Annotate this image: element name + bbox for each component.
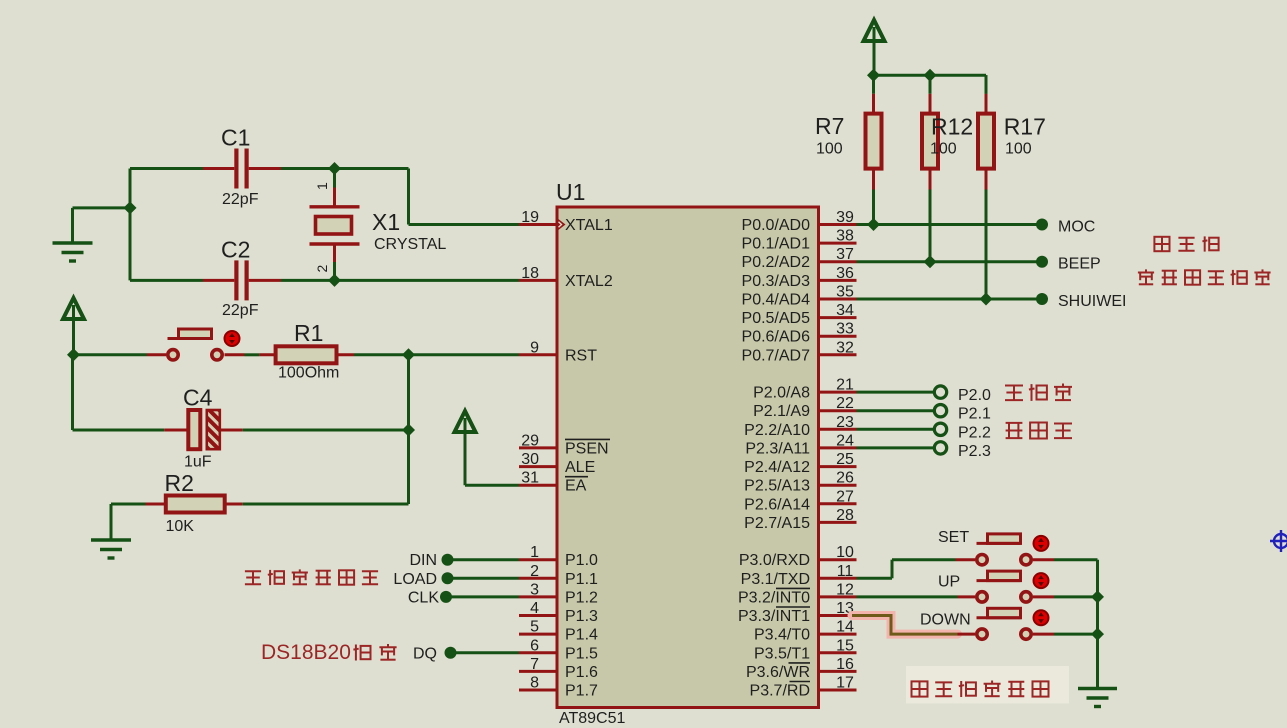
svg-text:P3.2/INT0: P3.2/INT0 — [738, 589, 810, 606]
svg-text:P0.6/AD6: P0.6/AD6 — [742, 329, 811, 346]
svg-text:39: 39 — [836, 209, 854, 226]
svg-text:UP: UP — [938, 574, 960, 591]
svg-text:P1.3: P1.3 — [565, 608, 598, 625]
svg-text:P1.2: P1.2 — [565, 589, 598, 606]
svg-text:19: 19 — [521, 209, 539, 226]
svg-text:11: 11 — [837, 563, 854, 580]
svg-text:P1.1: P1.1 — [565, 571, 598, 588]
svg-text:3: 3 — [530, 581, 539, 598]
svg-text:10K: 10K — [166, 518, 195, 535]
svg-text:16: 16 — [836, 656, 854, 673]
svg-text:18: 18 — [521, 265, 539, 282]
svg-text:P0.2/AD2: P0.2/AD2 — [742, 254, 811, 271]
svg-text:P1.0: P1.0 — [565, 552, 598, 569]
svg-text:P3.3/INT1: P3.3/INT1 — [738, 608, 810, 625]
svg-text:P2.5/A13: P2.5/A13 — [744, 478, 810, 495]
svg-text:8: 8 — [530, 675, 539, 692]
svg-text:35: 35 — [836, 284, 854, 301]
svg-text:26: 26 — [836, 470, 854, 487]
svg-text:RST: RST — [565, 347, 597, 364]
svg-text:P2.1: P2.1 — [958, 406, 991, 423]
svg-text:DS18B20: DS18B20 — [261, 641, 351, 664]
svg-text:22pF: 22pF — [222, 191, 259, 208]
svg-text:100: 100 — [1005, 141, 1032, 158]
svg-text:R7: R7 — [815, 113, 844, 139]
svg-text:P1.4: P1.4 — [565, 627, 598, 644]
svg-text:24: 24 — [836, 432, 854, 449]
svg-text:CLK: CLK — [408, 589, 439, 606]
svg-text:2: 2 — [314, 265, 330, 273]
svg-text:P2.3: P2.3 — [958, 443, 991, 460]
svg-text:XTAL2: XTAL2 — [565, 273, 613, 290]
svg-text:U1: U1 — [556, 179, 585, 205]
svg-text:R2: R2 — [165, 470, 194, 496]
svg-text:P2.0: P2.0 — [958, 387, 991, 404]
svg-text:29: 29 — [521, 432, 539, 449]
svg-text:1uF: 1uF — [184, 454, 212, 471]
svg-text:P3.6/WR: P3.6/WR — [746, 664, 810, 681]
svg-text:C1: C1 — [221, 125, 250, 151]
svg-text:37: 37 — [836, 246, 854, 263]
svg-text:7: 7 — [530, 656, 539, 673]
svg-text:AT89C51: AT89C51 — [559, 710, 626, 727]
svg-text:28: 28 — [836, 507, 854, 524]
svg-text:P2.6/A14: P2.6/A14 — [744, 496, 810, 513]
svg-text:1: 1 — [314, 182, 330, 190]
svg-text:X1: X1 — [372, 209, 400, 235]
svg-text:P0.7/AD7: P0.7/AD7 — [742, 347, 811, 364]
svg-text:P0.5/AD5: P0.5/AD5 — [742, 310, 811, 327]
svg-text:100: 100 — [930, 141, 957, 158]
svg-text:P3.0/RXD: P3.0/RXD — [739, 552, 810, 569]
svg-text:10: 10 — [836, 544, 854, 561]
svg-text:R17: R17 — [1004, 114, 1046, 140]
svg-text:25: 25 — [836, 451, 854, 468]
svg-text:PSEN: PSEN — [565, 440, 609, 457]
svg-text:P1.7: P1.7 — [565, 683, 598, 700]
svg-text:23: 23 — [836, 414, 854, 431]
svg-text:SET: SET — [938, 529, 969, 546]
svg-text:P3.1/TXD: P3.1/TXD — [741, 571, 810, 588]
svg-text:22: 22 — [836, 395, 854, 412]
svg-text:DQ: DQ — [413, 645, 437, 662]
svg-text:MOC: MOC — [1058, 219, 1095, 236]
svg-text:2: 2 — [530, 563, 539, 580]
svg-text:C4: C4 — [183, 385, 213, 411]
svg-text:17: 17 — [836, 675, 854, 692]
svg-text:LOAD: LOAD — [393, 571, 437, 588]
svg-text:CRYSTAL: CRYSTAL — [374, 236, 446, 253]
svg-text:P2.7/A15: P2.7/A15 — [744, 515, 810, 532]
svg-text:P2.2/A10: P2.2/A10 — [744, 422, 810, 439]
svg-text:32: 32 — [836, 339, 854, 356]
svg-text:P0.1/AD1: P0.1/AD1 — [742, 236, 811, 253]
svg-text:ALE: ALE — [565, 459, 595, 476]
svg-text:1: 1 — [530, 544, 539, 561]
svg-text:P1.6: P1.6 — [565, 664, 598, 681]
svg-text:9: 9 — [530, 339, 539, 356]
svg-text:14: 14 — [836, 619, 854, 636]
svg-text:21: 21 — [836, 377, 854, 394]
svg-text:DOWN: DOWN — [920, 612, 971, 629]
svg-text:SHUIWEI: SHUIWEI — [1058, 293, 1126, 310]
svg-text:P0.0/AD0: P0.0/AD0 — [742, 217, 811, 234]
svg-text:100Ohm: 100Ohm — [278, 365, 339, 382]
svg-text:DIN: DIN — [409, 552, 437, 569]
svg-text:BEEP: BEEP — [1058, 256, 1101, 273]
svg-text:30: 30 — [521, 451, 539, 468]
svg-text:100: 100 — [816, 141, 843, 158]
svg-text:5: 5 — [530, 619, 539, 636]
svg-text:P2.1/A9: P2.1/A9 — [753, 403, 810, 420]
svg-text:P1.5: P1.5 — [565, 645, 598, 662]
svg-text:12: 12 — [836, 581, 854, 598]
svg-text:P2.4/A12: P2.4/A12 — [744, 459, 810, 476]
svg-text:P3.4/T0: P3.4/T0 — [754, 627, 810, 644]
svg-text:P0.3/AD3: P0.3/AD3 — [742, 273, 811, 290]
svg-text:P2.0/A8: P2.0/A8 — [753, 385, 810, 402]
svg-text:R12: R12 — [931, 114, 973, 140]
svg-text:P3.5/T1: P3.5/T1 — [754, 645, 810, 662]
svg-text:33: 33 — [836, 321, 854, 338]
svg-text:P0.4/AD4: P0.4/AD4 — [742, 292, 811, 309]
svg-text:P2.3/A11: P2.3/A11 — [745, 440, 810, 457]
svg-text:38: 38 — [836, 228, 854, 245]
svg-text:4: 4 — [530, 600, 539, 617]
svg-text:15: 15 — [836, 637, 854, 654]
svg-text:XTAL1: XTAL1 — [565, 217, 613, 234]
svg-text:27: 27 — [836, 488, 854, 505]
svg-text:22pF: 22pF — [222, 302, 259, 319]
svg-text:31: 31 — [521, 470, 539, 487]
svg-text:P2.2: P2.2 — [958, 424, 991, 441]
svg-text:R1: R1 — [294, 320, 323, 346]
svg-text:P3.7/RD: P3.7/RD — [750, 683, 810, 700]
svg-text:6: 6 — [530, 637, 539, 654]
svg-text:C2: C2 — [221, 237, 250, 263]
svg-text:34: 34 — [836, 302, 854, 319]
svg-text:EA: EA — [565, 478, 587, 495]
svg-text:36: 36 — [836, 265, 854, 282]
